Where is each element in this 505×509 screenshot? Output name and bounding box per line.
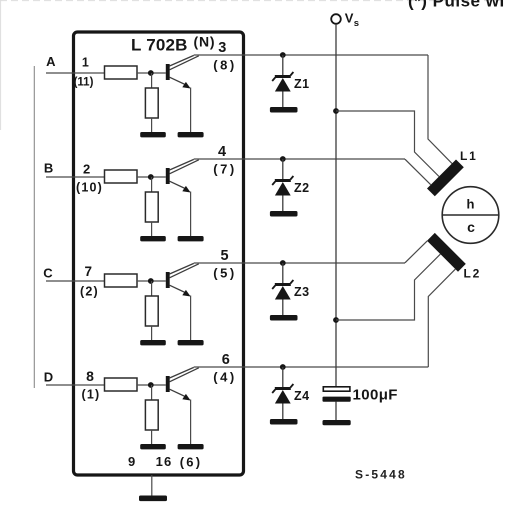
svg-text:5: 5: [221, 248, 229, 264]
svg-text:2: 2: [83, 162, 90, 177]
svg-text:Z2: Z2: [294, 181, 310, 195]
wire: resistor to ground: [151, 430, 153, 445]
wire: Vs rail: [335, 24, 337, 388]
resistor RC1 base series: [105, 274, 138, 287]
svg-text:(5): (5): [213, 266, 236, 281]
wire: capacitor to ground: [335, 402, 337, 422]
node: base junction of C: [148, 278, 154, 284]
transistor QD collector (double stroke): [170, 367, 194, 378]
node: Z4 tap on output line: [280, 364, 286, 370]
wire: junction to lower resistor: [151, 73, 153, 88]
transistor QD base bar: [166, 376, 170, 392]
wire: resistor to base: [137, 72, 166, 74]
svg-text:Z1: Z1: [294, 77, 310, 91]
resistor RB2 base-emitter: [145, 192, 158, 222]
transistor QA emitter with arrow: [170, 77, 188, 85]
transistor QB base bar: [166, 168, 170, 184]
wire: resistor to base: [137, 176, 166, 178]
svg-text:S-5448: S-5448: [355, 468, 407, 482]
transistor QC base bar: [166, 272, 170, 288]
svg-text:7: 7: [84, 264, 92, 279]
ground (Z1): [270, 107, 298, 113]
wire: Vs tap to L1 centre: [336, 111, 439, 177]
wire: emitter to ground: [190, 400, 192, 446]
resistor RD1 base series: [105, 378, 138, 391]
node: base junction of D: [148, 382, 154, 388]
zener diode Z4: [282, 367, 284, 388]
svg-text:3: 3: [218, 40, 226, 56]
wire: input B: [46, 176, 105, 178]
ground (RC2): [140, 340, 166, 345]
wire: resistor to base: [137, 280, 166, 282]
svg-text:L1: L1: [460, 149, 478, 163]
node: Vs to L1 centre tap: [333, 108, 339, 114]
node: base junction of B: [148, 174, 154, 180]
svg-text:Z4: Z4: [294, 389, 310, 403]
node: Z3 tap on output line: [280, 260, 286, 266]
svg-text:A: A: [46, 54, 56, 69]
svg-text:(10): (10): [76, 181, 103, 195]
svg-text:(6): (6): [180, 455, 203, 470]
zener diode Z2: [282, 159, 284, 180]
winding L2: [427, 233, 466, 272]
wire: emitter to ground: [190, 192, 192, 238]
svg-text:(4): (4): [213, 370, 236, 385]
supply terminal Vs: [331, 14, 341, 24]
wire: output 3: [194, 54, 428, 56]
svg-text:(N): (N): [194, 34, 216, 50]
svg-text:8: 8: [86, 368, 94, 384]
motor M1: [442, 187, 499, 244]
wire: emitter to ground: [190, 296, 192, 342]
winding L1: [427, 160, 464, 197]
wire: output 5 elbow to L2 top: [405, 241, 427, 263]
wire: junction to lower resistor: [151, 177, 153, 192]
IC U1 L702B package outline: [74, 32, 244, 475]
wire: resistor to base: [137, 384, 166, 386]
svg-text:h: h: [467, 197, 475, 212]
svg-text:(*) Pulse widt: (*) Pulse widt: [408, 0, 505, 11]
svg-text:(7): (7): [213, 162, 236, 177]
resistor RA1 base series: [105, 66, 138, 79]
svg-text:4: 4: [218, 144, 226, 160]
ground (Z4): [270, 419, 298, 425]
wire: junction to lower resistor: [151, 385, 153, 400]
wire: input C: [46, 280, 105, 282]
svg-text:L2: L2: [464, 267, 482, 281]
wire: output 5: [194, 262, 405, 264]
resistor RC2 base-emitter: [145, 296, 158, 326]
wire: resistor to ground: [151, 222, 153, 237]
svg-text:100μF: 100μF: [353, 387, 398, 404]
wire: junction to lower resistor: [151, 281, 153, 296]
ground (C1): [323, 420, 351, 425]
svg-text:V: V: [345, 11, 354, 26]
svg-text:c: c: [467, 219, 475, 235]
transistor QC emitter with arrow: [170, 285, 188, 293]
transistor QD emitter with arrow: [170, 389, 188, 397]
resistor RB1 base series: [105, 170, 138, 183]
transistor QA base bar: [166, 64, 170, 80]
ground (QA emitter): [178, 132, 204, 137]
svg-text:1: 1: [82, 56, 89, 70]
transistor QC collector (double stroke): [170, 263, 194, 274]
capacitor C1 bottom plate: [323, 397, 351, 402]
wire: Vs tap to L2 centre: [336, 254, 440, 320]
svg-text:L 702B: L 702B: [131, 36, 188, 55]
wire: output 6 elbow to L2 bottom: [428, 269, 455, 367]
ground (QC emitter): [178, 340, 204, 345]
ground (RD2): [140, 444, 166, 449]
node: base junction of A: [148, 70, 154, 76]
wire: output 4: [194, 158, 405, 160]
wire: resistor to ground: [151, 118, 153, 133]
wire: output 3 elbow to L1 top: [428, 55, 452, 164]
svg-text:C: C: [43, 266, 53, 281]
svg-text:(1): (1): [82, 388, 101, 402]
wire: resistor to ground: [151, 326, 153, 341]
svg-text:(8): (8): [213, 58, 236, 73]
zener diode Z1: [282, 55, 284, 76]
node: Vs to L2 centre tap: [333, 317, 339, 323]
svg-text:9: 9: [128, 454, 135, 469]
wire: emitter to ground: [190, 88, 192, 134]
ground (QB emitter): [178, 236, 204, 241]
ground (RB2): [140, 236, 166, 241]
resistor RD2 base-emitter: [145, 400, 158, 430]
transistor QB emitter with arrow: [170, 181, 188, 189]
ground (Z2): [270, 211, 298, 217]
capacitor C1 100uF top plate: [323, 387, 350, 391]
wire: output 6: [194, 366, 428, 368]
wire: input D: [46, 384, 105, 386]
resistor RA2 base-emitter: [145, 88, 158, 118]
scan border top: [0, 0, 505, 2]
node: Z1 tap on output line: [280, 52, 286, 58]
node: Z2 tap on output line: [280, 156, 286, 162]
svg-text:D: D: [44, 370, 53, 385]
svg-text:(2): (2): [80, 285, 99, 299]
ground (QD emitter): [178, 444, 204, 449]
svg-text:B: B: [44, 161, 53, 176]
ground (RA2): [140, 132, 166, 137]
ground (IC substrate): [139, 496, 167, 502]
svg-text:16: 16: [156, 454, 173, 469]
transistor QB collector (double stroke): [170, 159, 194, 170]
svg-text:6: 6: [222, 352, 230, 368]
svg-text:(11): (11): [74, 77, 94, 89]
wire: output 4 elbow to L1 bottom: [405, 159, 431, 185]
transistor QA collector (double stroke): [170, 55, 194, 66]
wire: input A: [46, 72, 105, 74]
wire: left reference line: [33, 66, 35, 388]
svg-text:s: s: [354, 18, 359, 29]
ground (Z3): [270, 315, 298, 321]
wire: substrate to ground: [151, 475, 153, 497]
zener diode Z3: [282, 263, 284, 284]
svg-text:Z3: Z3: [294, 285, 310, 299]
